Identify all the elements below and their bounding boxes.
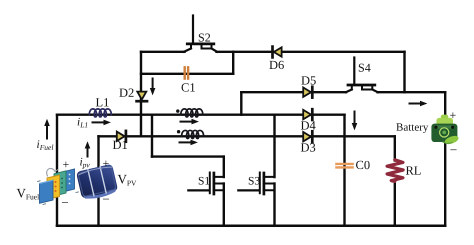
- wire fuel branch: [56, 115, 58, 226]
- svg-text:D2: D2: [119, 86, 134, 100]
- arrow i_L1: [93, 120, 111, 126]
- svg-text:D6: D6: [269, 58, 284, 72]
- dot W2: [177, 130, 180, 133]
- dot W1: [176, 109, 179, 112]
- svg-text:S1: S1: [198, 175, 210, 187]
- arrow i_Fuel: [44, 119, 50, 139]
- wire S1 source: [223, 184, 225, 226]
- svg-text:+: +: [102, 156, 109, 170]
- svg-text:–: –: [102, 191, 110, 205]
- svg-text:+: +: [449, 108, 456, 122]
- battery icon: [431, 115, 459, 146]
- wire main row: [57, 113, 345, 115]
- arrow i_pv: [85, 141, 91, 156]
- wire C1 right: [232, 52, 234, 74]
- wire S1 drain: [223, 157, 225, 177]
- wire C1 row: [141, 73, 233, 75]
- wire D5 branch: [240, 92, 242, 115]
- transistor S1: [188, 173, 224, 195]
- capacitor C0: [336, 164, 352, 168]
- svg-text:D4: D4: [300, 119, 316, 133]
- arrow W1 current: [181, 119, 199, 125]
- arrow battery current: [410, 101, 428, 107]
- wire S3 drain: [273, 115, 275, 177]
- svg-text:iL1: iL1: [77, 116, 88, 129]
- transistor S2: [184, 16, 217, 52]
- svg-text:S2: S2: [198, 30, 211, 44]
- resistor RL: [387, 160, 403, 182]
- svg-text:+: +: [62, 157, 69, 171]
- svg-text:D5: D5: [301, 74, 316, 88]
- wire C0 branch: [343, 115, 345, 226]
- svg-text:C1: C1: [181, 80, 196, 94]
- svg-text:S3: S3: [248, 176, 260, 188]
- solar panel V_PV icon: [76, 164, 119, 202]
- wire top right corner: [403, 52, 405, 92]
- wire bottom rail: [57, 225, 445, 228]
- coupled winding W1: [181, 109, 203, 117]
- svg-text:D1: D1: [112, 138, 127, 152]
- svg-text:S4: S4: [358, 61, 371, 75]
- diode D1: [117, 131, 126, 142]
- diode D3: [303, 131, 312, 142]
- capacitor C1: [185, 67, 188, 78]
- svg-text:ipv: ipv: [79, 156, 90, 169]
- svg-text:RL: RL: [405, 164, 421, 178]
- fuel cell icon: [38, 168, 79, 204]
- svg-text:VPV: VPV: [117, 171, 137, 187]
- diode D2: [137, 92, 147, 102]
- svg-text:L1: L1: [96, 95, 110, 109]
- wire S1 branch top: [151, 115, 153, 157]
- svg-text:Battery: Battery: [396, 122, 429, 134]
- wire top rail: [141, 51, 405, 53]
- svg-text:C0: C0: [355, 158, 370, 172]
- diode D5: [303, 87, 312, 98]
- svg-text:D3: D3: [300, 141, 315, 155]
- svg-text:–: –: [449, 142, 457, 156]
- wire pv branch: [97, 136, 99, 226]
- wire S1 jog: [152, 155, 224, 157]
- wire D5 row: [241, 91, 445, 93]
- arrow W2 current: [180, 140, 198, 146]
- transistor S4: [346, 58, 378, 93]
- wire D2 branch: [140, 52, 142, 137]
- arrow C0 branch: [352, 112, 358, 131]
- inductor L1: [89, 109, 111, 117]
- wire D1 row: [99, 135, 395, 137]
- arrow D2 branch: [150, 79, 156, 96]
- diode D4: [303, 109, 312, 120]
- svg-text:VFuel: VFuel: [16, 185, 39, 201]
- wire S3 source: [273, 184, 275, 226]
- transistor S3: [238, 173, 274, 195]
- svg-text:–: –: [61, 194, 69, 208]
- wire battery branch: [444, 92, 446, 226]
- coupled winding W2: [182, 130, 204, 138]
- wire RL branch: [394, 136, 396, 226]
- diode D6: [273, 47, 282, 58]
- svg-text:iFuel: iFuel: [36, 139, 53, 152]
